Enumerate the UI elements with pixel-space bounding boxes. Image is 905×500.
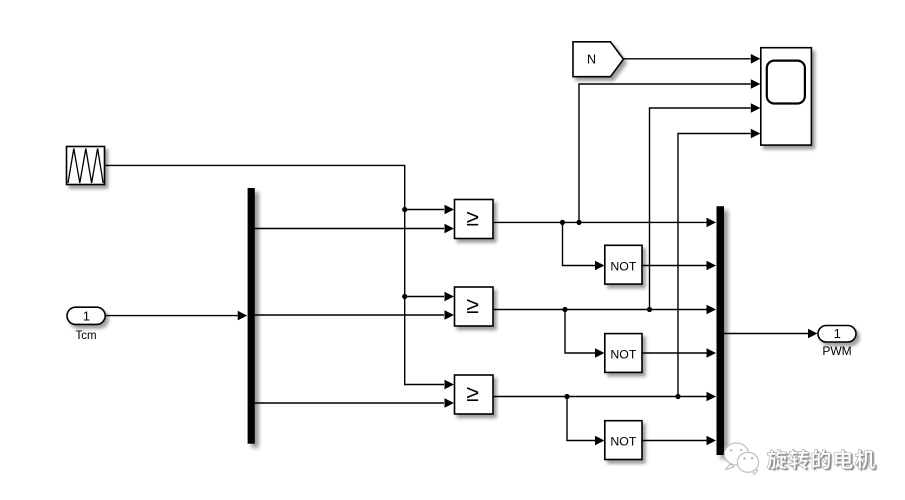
svg-text:NOT: NOT xyxy=(610,348,636,362)
svg-text:≥: ≥ xyxy=(466,205,479,231)
svg-text:NOT: NOT xyxy=(610,435,636,449)
svg-text:N: N xyxy=(587,53,596,67)
svg-text:≥: ≥ xyxy=(466,292,479,318)
svg-text:Tcm: Tcm xyxy=(75,330,96,342)
svg-text:1: 1 xyxy=(834,326,841,341)
svg-text:PWM: PWM xyxy=(822,344,851,358)
svg-text:1: 1 xyxy=(83,308,90,323)
svg-text:NOT: NOT xyxy=(610,259,636,273)
svg-text:≥: ≥ xyxy=(466,380,479,406)
